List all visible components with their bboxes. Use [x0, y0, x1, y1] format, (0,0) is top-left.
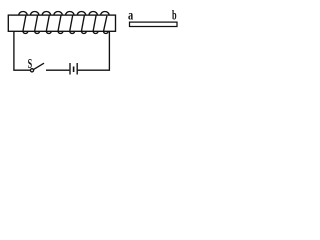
battery B1 middle plate (short) — [73, 67, 75, 73]
solenoid L1 front winding lines — [23, 15, 107, 31]
solenoid L1 top winding arcs — [19, 11, 109, 15]
wire left lead of coil down to switch — [14, 31, 30, 70]
solenoid L1 bottom winding arcs — [23, 31, 108, 33]
switch S1 lever (open) — [34, 63, 44, 69]
svg-text:a: a — [128, 8, 133, 23]
svg-text:b: b — [172, 8, 177, 23]
wire right lead of coil down to battery — [78, 31, 110, 70]
switch S1 hinge circle — [30, 69, 33, 72]
battery B1 left plate (long) — [69, 63, 71, 75]
svg-text:S: S — [28, 57, 33, 72]
solenoid L1 core rectangle — [8, 15, 115, 31]
iron bar ab — [130, 22, 178, 26]
battery B1 right plate (long) — [76, 63, 78, 75]
wire from switch to battery — [46, 69, 69, 71]
